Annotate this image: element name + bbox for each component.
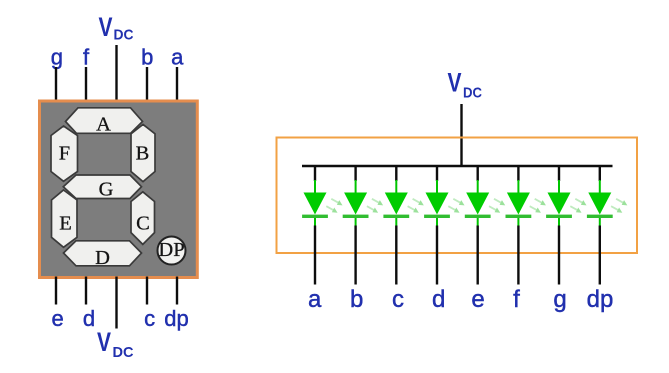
LED D8 (segment dp) <box>587 180 613 226</box>
wire: common anode bus <box>302 165 613 167</box>
svg-text:b: b <box>350 286 363 313</box>
wire: cathode lead of LED D3 <box>395 226 397 285</box>
light emission arrows of LED D2 <box>366 196 385 214</box>
wire: anode stub of LED D8 <box>599 166 601 181</box>
svg-text:a: a <box>308 286 322 313</box>
svg-text:g: g <box>553 286 566 313</box>
LED D3 (segment c) <box>383 180 409 226</box>
wire: anode stub of LED D1 <box>314 166 316 181</box>
wire: pin dp (bottom) <box>176 277 178 305</box>
decimal point DP <box>158 237 186 265</box>
svg-text:f: f <box>513 286 520 313</box>
V_DC power label (top of display) <box>99 12 134 44</box>
LED D1 (segment a) <box>302 180 328 226</box>
light emission arrows of LED D1 <box>325 196 344 214</box>
svg-text:c: c <box>392 286 404 313</box>
LED D2 (segment b) <box>343 180 369 226</box>
segment G <box>63 175 141 201</box>
svg-text:V: V <box>448 68 462 98</box>
svg-text:V: V <box>97 327 111 357</box>
segment B <box>131 124 155 181</box>
svg-text:f: f <box>83 45 90 70</box>
svg-text:E: E <box>59 213 72 235</box>
light emission arrows of LED D6 <box>528 196 547 214</box>
svg-text:C: C <box>136 213 150 235</box>
svg-text:F: F <box>59 143 70 165</box>
display package outline (schematic) <box>277 138 638 254</box>
wire: anode stub of LED D5 <box>477 166 479 181</box>
svg-text:V: V <box>99 12 113 42</box>
LED D7 (segment g) <box>546 180 572 226</box>
svg-text:DC: DC <box>463 85 482 102</box>
wire: pin c (bottom) <box>146 277 148 305</box>
wire: anode stub of LED D4 <box>436 166 438 181</box>
wire: anode stub of LED D7 <box>558 166 560 181</box>
svg-text:G: G <box>99 179 114 201</box>
wire: pin f (top) <box>85 67 87 101</box>
svg-text:e: e <box>51 306 63 331</box>
svg-text:a: a <box>171 45 184 70</box>
7-segment display package body U1 <box>40 101 198 278</box>
wire: cathode lead of LED D6 <box>517 226 519 285</box>
svg-text:c: c <box>144 306 155 331</box>
svg-text:dp: dp <box>587 286 614 313</box>
svg-text:DC: DC <box>113 344 134 361</box>
segment E <box>52 190 78 247</box>
svg-text:g: g <box>51 45 63 70</box>
segment A <box>66 108 143 136</box>
svg-text:dp: dp <box>164 306 188 331</box>
wire: V_DC supply drop <box>460 104 462 166</box>
wire: anode stub of LED D6 <box>517 166 519 181</box>
svg-text:B: B <box>136 143 150 165</box>
light emission arrows of LED D4 <box>447 196 466 214</box>
wire: cathode lead of LED D5 <box>477 226 479 285</box>
wire: pin e (bottom) <box>55 277 57 305</box>
light emission arrows of LED D7 <box>569 196 588 214</box>
wire: cathode lead of LED D7 <box>558 226 560 285</box>
svg-text:d: d <box>432 286 445 313</box>
wire: pin a (top) <box>176 67 178 101</box>
wire: bottom V_DC pin 8 <box>115 277 117 329</box>
LED D4 (segment d) <box>424 180 450 226</box>
svg-text:DP: DP <box>158 239 184 261</box>
wire: cathode lead of LED D1 <box>314 226 316 285</box>
svg-text:DC: DC <box>114 27 134 44</box>
svg-text:A: A <box>96 114 111 136</box>
segment F <box>51 126 78 181</box>
V_DC power label (bottom of display) <box>97 327 134 361</box>
svg-text:b: b <box>141 45 153 70</box>
svg-text:d: d <box>83 306 95 331</box>
svg-text:e: e <box>471 286 484 313</box>
wire: top V_DC pin 3 <box>115 45 117 101</box>
segment D <box>64 241 142 269</box>
light emission arrows of LED D8 <box>610 196 629 214</box>
light emission arrows of LED D3 <box>406 196 425 214</box>
V_DC power label (schematic supply) <box>448 68 483 102</box>
wire: cathode lead of LED D2 <box>354 226 356 285</box>
wire: cathode lead of LED D4 <box>436 226 438 285</box>
wire: pin b (top) <box>146 67 148 101</box>
segment C <box>131 192 155 245</box>
wire: cathode lead of LED D8 <box>599 226 601 285</box>
LED D6 (segment f) <box>506 180 532 226</box>
svg-text:D: D <box>95 247 110 269</box>
wire: anode stub of LED D2 <box>354 166 356 181</box>
wire: anode stub of LED D3 <box>395 166 397 181</box>
LED D5 (segment e) <box>465 180 491 226</box>
light emission arrows of LED D5 <box>488 196 507 214</box>
wire: pin g (top) <box>55 67 57 101</box>
wire: pin d (bottom) <box>85 277 87 305</box>
